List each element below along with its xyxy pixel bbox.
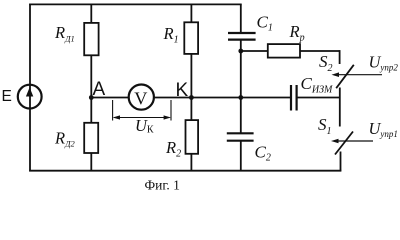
svg-text:S1: S1 — [318, 115, 332, 137]
junction dot mid wire — [238, 95, 243, 100]
wire R1 top lead — [190, 4, 192, 22]
wire Rd1 top lead — [90, 4, 92, 23]
svg-text:R2: R2 — [165, 138, 181, 159]
wire Cizm right plate to switch column — [297, 97, 340, 99]
switch S2 control arrow — [332, 72, 383, 77]
wire S1 bottom lead — [340, 152, 342, 171]
Uk dimension left tick — [112, 100, 114, 121]
wire junction to Rp — [241, 50, 268, 52]
capacitor C2 plates — [227, 133, 254, 140]
switch S2 blade — [336, 65, 354, 88]
wire node K to capacitor column junction — [191, 97, 240, 99]
wire node A to voltmeter — [91, 97, 128, 99]
Uk dimension right tick — [170, 100, 172, 121]
svg-text:R1: R1 — [163, 24, 179, 45]
Uk dimension arrow line — [113, 115, 171, 119]
wire top rail — [29, 3, 242, 5]
resistor R2 — [186, 120, 199, 154]
voltmeter U1 circle — [129, 85, 154, 110]
resistor R1 — [184, 22, 198, 54]
svg-text:UК: UК — [135, 116, 154, 136]
resistor Rp — [268, 44, 300, 58]
node A junction dot — [89, 95, 94, 100]
svg-text:C1: C1 — [257, 13, 273, 34]
svg-text:A: A — [93, 79, 106, 100]
wire R2 bottom lead — [190, 154, 192, 171]
svg-text:E: E — [2, 88, 12, 105]
svg-text:Rp: Rp — [289, 22, 305, 44]
svg-text:Фиг. 1: Фиг. 1 — [145, 178, 180, 193]
wire Rd1 to node A — [90, 55, 92, 98]
capacitor C1 plates — [228, 33, 256, 40]
svg-text:RД2: RД2 — [54, 128, 76, 148]
node K junction dot — [189, 95, 194, 100]
svg-text:СИЗМ: СИЗМ — [301, 74, 334, 96]
resistor Rd2 — [84, 123, 98, 153]
wire C1 bottom to C2 top — [240, 40, 242, 134]
junction dot Rp branch — [238, 49, 243, 54]
wire voltmeter to node K — [154, 97, 191, 99]
switch S1 control arrow — [331, 139, 373, 144]
wire Rp to S2 corner — [300, 50, 340, 52]
svg-text:Uупр1: Uупр1 — [369, 119, 398, 139]
capacitor Cizm plates — [291, 85, 297, 111]
wire left rail — [29, 4, 31, 172]
svg-text:K: K — [176, 80, 189, 101]
source E arrowhead — [26, 87, 33, 96]
wire node A to Rd2 — [90, 98, 92, 123]
wire C2 bottom lead — [240, 141, 242, 171]
switch S1 blade — [335, 132, 353, 155]
wire Rd2 bottom lead — [90, 153, 92, 171]
wire S2 top contact — [339, 50, 341, 64]
svg-text:RД1: RД1 — [54, 23, 75, 43]
wire Cizm junction to left plate — [241, 97, 291, 99]
wire node K to R2 — [190, 98, 192, 121]
source E circle — [18, 85, 42, 109]
wire bottom rail — [29, 170, 341, 172]
resistor Rd1 — [84, 23, 98, 55]
wire R1 to node K — [190, 54, 192, 98]
svg-text:S2: S2 — [319, 52, 333, 74]
wire S2 pivot to S1 contact — [339, 88, 341, 127]
svg-text:Uупр2: Uупр2 — [369, 53, 399, 73]
svg-text:V: V — [134, 89, 147, 109]
wire C1 top lead — [240, 4, 242, 33]
svg-text:C2: C2 — [255, 143, 271, 164]
